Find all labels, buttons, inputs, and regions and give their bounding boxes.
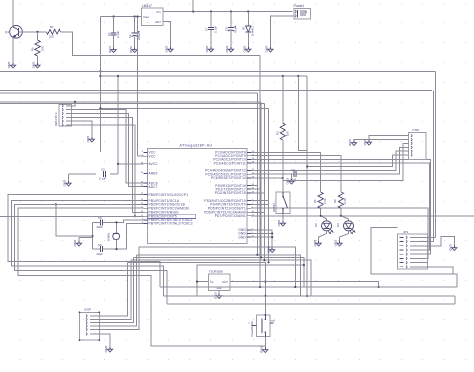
node R5-bus	[320, 215, 322, 217]
wire loop PB1	[11, 201, 163, 296]
node rail-D1	[247, 10, 249, 12]
svg-text:PD7/PCINT23/AIN1: PD7/PCINT23/AIN1	[215, 214, 246, 218]
wire Vin input rail	[167, 11, 293, 13]
wire C3 gnd stub	[291, 174, 293, 179]
svg-text:GND: GND	[108, 46, 112, 54]
wire net76 drop	[306, 76, 308, 296]
svg-text:10K: 10K	[41, 46, 45, 51]
wire FTDI pin1 gnd	[369, 136, 405, 140]
wire loop PB2	[15, 204, 167, 304]
connector FTDI	[405, 128, 427, 159]
wire ISP pin5 to ground	[72, 121, 92, 137]
wire link y262 to PowerButton	[127, 262, 265, 315]
transistor Q1	[5, 26, 22, 39]
svg-text:TSOP1838: TSOP1838	[209, 270, 223, 274]
svg-text:PC6/RESET/PCINT14: PC6/RESET/PCINT14	[211, 176, 246, 180]
connector SV1 AVR-ISP-6	[54, 104, 72, 126]
wire rail to top edge	[192, 0, 194, 12]
svg-text:0.1uF: 0.1uF	[116, 31, 120, 38]
ground GND (FTDI1)	[363, 139, 371, 147]
wire link y260	[131, 260, 311, 296]
svg-text:R5: R5	[313, 199, 317, 203]
ground GND (ADJ)	[165, 46, 173, 54]
wire RESET net	[251, 143, 405, 180]
svg-text:GND: GND	[225, 46, 229, 54]
ground GND (crystal)	[73, 238, 92, 248]
node 5V-bus76	[99, 75, 101, 77]
wire VCC2 drop	[138, 17, 144, 157]
capacitor C2 230uF	[128, 17, 141, 48]
wire C4 to ground	[68, 174, 70, 181]
wire Vout rail	[100, 16, 141, 18]
node PowerButton top	[264, 314, 266, 316]
svg-text:GND: GND	[313, 240, 317, 248]
svg-text:R7: R7	[50, 25, 54, 29]
svg-text:GND: GND	[165, 46, 169, 54]
wire net76 drop2	[298, 76, 307, 151]
wire PD4 stub	[251, 203, 269, 205]
wire PD5 long	[251, 208, 428, 258]
svg-text:22pF: 22pF	[97, 252, 104, 256]
ground GND (C3)	[286, 178, 294, 186]
svg-text:GND: GND	[205, 46, 209, 54]
capacitor C8 47uF	[224, 12, 237, 48]
node crystal top	[115, 221, 117, 223]
wire ISP pin1 to VCC bus	[72, 101, 76, 106]
svg-text:GND: GND	[129, 46, 133, 54]
wire jack pin2 to ground	[270, 16, 294, 47]
svg-text:PB7/PCINT7/XTAL2/TOSC2: PB7/PCINT7/XTAL2/TOSC2	[149, 222, 193, 226]
node enclosure-drop	[303, 264, 305, 266]
wire PowerButton to ground	[264, 337, 266, 348]
ground GND (C8)	[225, 46, 233, 54]
svg-text:GND: GND	[348, 139, 352, 147]
wire link y247	[139, 247, 295, 287]
resistor R3	[275, 123, 289, 140]
node crystal bottom	[115, 248, 117, 250]
regulator IC1 LM317	[142, 4, 164, 26]
wire Q1 base node	[19, 31, 47, 33]
svg-text:ICSP: ICSP	[84, 308, 91, 312]
svg-text:GND: GND	[277, 220, 281, 228]
wire LED1 to ground	[319, 231, 327, 241]
wire bus net93	[0, 92, 257, 94]
node net76-drop2	[297, 75, 299, 77]
node base junction	[36, 31, 38, 33]
capacitor C5 22pF	[93, 216, 117, 229]
ground GND (C1)	[108, 46, 116, 54]
capacitor C3 100n	[290, 168, 297, 182]
svg-text:D1: D1	[242, 26, 246, 30]
wire net93 drop	[256, 93, 258, 255]
wire PD7 net right	[251, 215, 474, 217]
svg-text:C1: C1	[107, 32, 111, 36]
svg-text:GND: GND	[449, 244, 453, 252]
connector ICSP	[79, 308, 101, 342]
svg-text:VCC: VCC	[149, 154, 157, 158]
svg-text:R8: R8	[333, 199, 337, 203]
wire bus net76	[100, 75, 307, 77]
ground GND (LED1)	[313, 240, 321, 248]
svg-text:GND: GND	[32, 62, 36, 70]
wire hdr row2 link	[427, 241, 433, 243]
wire XTAL2 link	[117, 223, 144, 249]
svg-text:10K: 10K	[285, 131, 289, 136]
ground GND (PowerButton)	[260, 346, 268, 354]
wire 5V long drop	[259, 55, 261, 287]
svg-text:Vin: Vin	[156, 10, 161, 14]
node R8-bus	[340, 215, 342, 217]
wire ICSP pin4 up	[99, 255, 136, 326]
wire net103 drop	[264, 104, 266, 261]
crystal Q2 16MHz	[107, 222, 120, 249]
svg-text:GND: GND	[286, 178, 290, 186]
wire bottom bus 303	[167, 303, 455, 305]
ground GND (LED2)	[334, 240, 342, 248]
wire crystal left rail	[92, 222, 94, 249]
wire hdr row8 link	[427, 267, 453, 274]
ground GND (header)	[449, 244, 457, 252]
LED D4	[336, 221, 355, 234]
wire bus net103	[0, 103, 265, 105]
node link257-drop	[260, 256, 262, 258]
wire ICSP pin3 up	[99, 258, 133, 323]
ground GND (Q1 emitter)	[7, 62, 15, 70]
svg-text:PowerButton: PowerButton	[250, 321, 254, 337]
svg-text:AVR-ISP-6: AVR-ISP-6	[54, 112, 58, 126]
svg-text:AREF: AREF	[149, 172, 158, 176]
wire right edge drop (from GND bus)	[434, 71, 436, 237]
svg-text:0.1uF: 0.1uF	[213, 26, 217, 33]
node rail-C7	[210, 10, 212, 12]
node crystal left mid	[91, 235, 93, 237]
svg-text:GND: GND	[63, 180, 67, 188]
wire LED2 to ground	[340, 231, 349, 241]
diode D1 1N4001	[242, 12, 255, 48]
wire PC2 long	[251, 160, 431, 255]
ground GND (C4)	[63, 180, 71, 188]
svg-text:Q1: Q1	[5, 30, 9, 34]
wire collector Q1 from top edge	[12, 0, 14, 26]
svg-text:2.2K: 2.2K	[323, 198, 327, 204]
wire FTDI pin2 gnd	[354, 139, 405, 142]
wire R3 bottom	[282, 140, 284, 192]
resistor R6	[31, 40, 45, 56]
ground GND (jack)	[265, 46, 273, 54]
wire FTDI pin4 line	[297, 147, 405, 174]
svg-text:GND: GND	[7, 62, 11, 70]
wire net108 drop	[268, 108, 270, 262]
capacitor C6 22pF	[93, 243, 117, 256]
wire RESET sw to ground	[282, 214, 284, 221]
node link260-drop	[263, 259, 265, 261]
svg-text:D3: D3	[314, 223, 318, 227]
wire R7 to 5V rail	[61, 32, 261, 56]
svg-text:D4: D4	[336, 223, 340, 227]
ground GND (FTDI2)	[348, 139, 356, 147]
ground GND (C2)	[129, 46, 137, 54]
node pbline-tsopout	[264, 281, 266, 283]
wire IC GND merge	[251, 230, 274, 248]
resistor R7	[47, 25, 61, 39]
wire TSOP OUT	[236, 282, 379, 287]
svg-text:Vout: Vout	[143, 15, 149, 19]
wire bottom bus 296	[164, 295, 456, 297]
ground GND (RESET)	[277, 220, 285, 228]
node rail-stub	[192, 10, 194, 12]
svg-text:GND: GND	[86, 136, 90, 144]
wire PC1 to R8	[251, 156, 341, 192]
wire bus net108	[100, 107, 268, 109]
ir receiver U2 TSOP1838	[204, 270, 236, 294]
resistor R8	[333, 192, 347, 208]
node TSOPout-bus	[378, 286, 380, 288]
pushbutton PowerButton	[249, 315, 276, 337]
wire PD1 stub	[251, 188, 261, 190]
wire bus net90	[0, 90, 432, 92]
capacitor C1 100n	[107, 17, 120, 48]
wire link y254	[136, 255, 300, 296]
wire SCK net left (PB5)	[0, 215, 144, 217]
node Vout-C1	[113, 15, 115, 17]
svg-text:0.1uF: 0.1uF	[99, 177, 106, 181]
svg-text:Power1: Power1	[294, 4, 305, 8]
svg-text:R3: R3	[275, 131, 279, 135]
ground GND (TSOP)	[213, 292, 221, 300]
wire PD3 stub	[251, 200, 269, 202]
node Vout-C2	[134, 15, 136, 17]
wire bus296 right drop	[454, 296, 456, 304]
node RESET-R3	[282, 177, 284, 179]
svg-text:LM317: LM317	[142, 4, 152, 8]
svg-text:2.2K: 2.2K	[343, 198, 347, 204]
wire AVCC drop	[117, 76, 119, 174]
svg-text:GND: GND	[334, 240, 338, 248]
svg-text:FTDI: FTDI	[413, 128, 420, 132]
svg-text:GND: GND	[238, 235, 246, 239]
node VCC2-Vout	[136, 15, 138, 17]
svg-text:220: 220	[49, 35, 54, 39]
wire PC3 long	[251, 163, 430, 250]
ground GND (R6)	[32, 62, 40, 70]
svg-text:GND: GND	[266, 246, 270, 254]
svg-text:JP1: JP1	[403, 230, 409, 234]
connector Power1 jack	[294, 4, 311, 19]
node bus287-295	[294, 286, 296, 288]
node bus287-5V	[259, 286, 261, 288]
svg-text:C3: C3	[291, 168, 295, 172]
wire R6 top	[37, 32, 39, 40]
wire GND bus	[0, 70, 436, 72]
wire net101 drop	[260, 102, 262, 258]
svg-text:PC3/ADC3/PCINT11: PC3/ADC3/PCINT11	[214, 161, 246, 165]
wire ISP pin3 to ADC7	[72, 114, 144, 187]
wire ISP pin2 to ADC6	[72, 110, 144, 183]
svg-text:AVCC: AVCC	[149, 162, 159, 166]
capacitor C7 0.1uF	[204, 12, 217, 48]
wire ICSP pin2 up	[99, 260, 131, 319]
svg-text:GND: GND	[73, 240, 77, 248]
wire R5 to LED1	[321, 208, 327, 221]
wire crystal gnd spur	[56, 204, 93, 236]
wire R8 to LED2	[341, 208, 349, 221]
node net76-R3	[282, 75, 284, 77]
wire ICSP pin5 up	[99, 247, 139, 330]
wire R6 bottom	[37, 56, 39, 63]
wire hdr row1 link	[427, 236, 435, 238]
wire ISP pin4 to PB4	[72, 117, 144, 212]
ground GND (ICSP)	[104, 346, 112, 354]
wire loop PB0	[8, 195, 160, 287]
node link254-drop	[256, 254, 258, 256]
ground GND (C7)	[205, 46, 213, 54]
wire PC5 to cap	[251, 173, 294, 175]
wire TSOP enclosure	[197, 265, 304, 296]
wire bus net101	[0, 101, 261, 103]
wire ADJ to ground	[163, 22, 171, 48]
node link262-drop	[267, 261, 269, 263]
node AVCC-bus76	[117, 75, 119, 77]
svg-text:GND: GND	[104, 346, 108, 354]
wire PD2 stub	[251, 192, 265, 194]
mcu U1 ATmega328P-AU	[141, 143, 255, 243]
svg-text:R6: R6	[31, 47, 35, 51]
svg-text:C6: C6	[98, 243, 102, 247]
wire ISP pin6 to SCK	[72, 125, 136, 218]
node net108-5V	[99, 107, 101, 109]
svg-text:PD2/INT0/PCINT18: PD2/INT0/PCINT18	[215, 191, 246, 195]
wire ICSP pin1 up	[99, 262, 127, 316]
wire TSOP Vs	[197, 281, 204, 283]
wire PD0 stub	[251, 185, 258, 187]
wire loop PB3	[18, 208, 265, 346]
ground GND (D1)	[243, 46, 251, 54]
wire AVCC to IC	[118, 163, 144, 165]
node 5V-gndbus	[99, 70, 101, 72]
wire hdr row3 to ground	[427, 237, 454, 246]
node rail-C8	[230, 10, 232, 12]
svg-text:OUT: OUT	[222, 280, 228, 284]
svg-text:C7: C7	[204, 27, 208, 31]
svg-text:GND: GND	[243, 46, 247, 54]
svg-text:16MHz: 16MHz	[107, 232, 111, 241]
wire net90 drop	[432, 91, 434, 242]
wire PC0 to R5	[251, 152, 321, 192]
svg-text:GND: GND	[265, 46, 269, 54]
capacitor C4 0.1uF	[69, 168, 119, 181]
wire link y257	[134, 258, 304, 288]
svg-text:GND: GND	[260, 346, 264, 354]
svg-text:ADJ: ADJ	[155, 20, 161, 24]
node TSOP-vs	[196, 281, 198, 283]
wire emitter Q1 to ground	[12, 25, 14, 63]
svg-text:ATmega328P-AU: ATmega328P-AU	[180, 143, 213, 147]
switch S1 RESET	[272, 192, 290, 214]
svg-text:C2: C2	[128, 34, 132, 38]
svg-text:RESET: RESET	[272, 202, 276, 212]
wire R3 top	[282, 76, 284, 123]
wire 5V vertical rail	[99, 17, 101, 153]
svg-text:PB0/PCINT0/CLKO/ICP1: PB0/PCINT0/CLKO/ICP1	[149, 193, 189, 197]
node drop-bus296	[306, 295, 308, 297]
svg-text:22pF: 22pF	[97, 225, 104, 229]
wire bottom bus 287	[160, 286, 457, 288]
svg-text:47uF: 47uF	[233, 26, 237, 33]
wire XTAL1 link	[117, 220, 144, 222]
node spur-loop3	[55, 203, 57, 205]
wire PD6 stub	[251, 211, 265, 213]
wire ICSP pin6 gnd	[99, 334, 110, 347]
svg-text:C8: C8	[224, 27, 228, 31]
wire Vin stub	[163, 11, 167, 13]
svg-text:1N4001: 1N4001	[251, 26, 255, 36]
svg-text:ADC7: ADC7	[149, 185, 158, 189]
ground GND (IC)	[266, 246, 274, 254]
connector JP1 8-pin	[397, 230, 427, 269]
wire outline box left	[371, 227, 457, 287]
node pbline-bus296	[264, 295, 266, 297]
ground GND (ISP)	[86, 136, 94, 144]
wire FTDI pin6 stub	[306, 155, 404, 168]
LED D3	[314, 221, 333, 234]
resistor R5	[313, 192, 327, 208]
wire PC4 to FTDI	[251, 151, 405, 170]
node AVCC join	[117, 163, 119, 165]
svg-text:C4: C4	[101, 168, 105, 172]
